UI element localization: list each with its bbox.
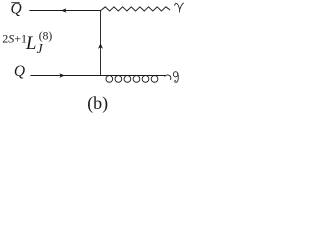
svg-text:(b): (b): [87, 93, 108, 114]
svg-text:J: J: [37, 41, 44, 56]
svg-text:(8): (8): [39, 31, 53, 43]
svg-text:L: L: [25, 33, 37, 54]
svg-text:Q: Q: [11, 1, 22, 18]
svg-text:2S+1: 2S+1: [2, 32, 27, 46]
svg-text:Q: Q: [14, 63, 25, 80]
